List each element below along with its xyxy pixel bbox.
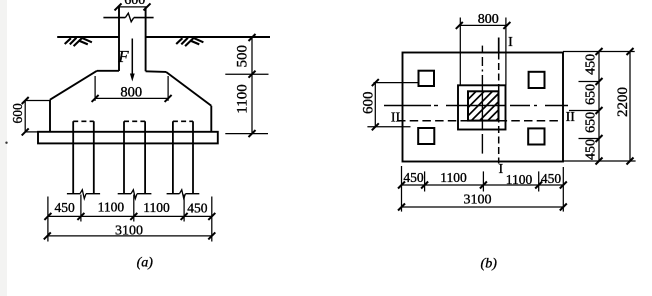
pile 3 bottom break symbol (167, 190, 200, 199)
svg-text:500: 500 (235, 45, 251, 67)
ink speck artefact (5, 142, 7, 144)
pile square top-left (plan) (419, 71, 435, 86)
pile 2 bottom break symbol (118, 190, 152, 199)
ground line left of column (57, 36, 119, 38)
figure a overall dimension 3100 (44, 223, 216, 239)
svg-text:I: I (498, 162, 503, 177)
svg-text:650: 650 (584, 84, 599, 105)
figure b bottom dimension 450 1100 1100 450 (398, 170, 567, 189)
ground line right of column (146, 36, 270, 38)
dimension 800 at top of figure b (456, 12, 511, 86)
pile square top-right (plan) (529, 72, 545, 88)
pile square bottom-right (plan) (528, 128, 544, 144)
load F arrow (130, 39, 135, 82)
dimension 800 in figure a (92, 76, 172, 102)
pile cap slab rectangle (38, 132, 218, 144)
svg-text:450: 450 (584, 139, 599, 160)
svg-text:1100: 1100 (440, 170, 467, 185)
figure b right extension lines (563, 52, 636, 162)
svg-text:600: 600 (360, 91, 376, 114)
svg-text:450: 450 (187, 200, 208, 215)
pile 1 of figure a (dashed embedded top, shafts) (73, 121, 94, 193)
section label II left (391, 111, 401, 126)
svg-text:(a): (a) (137, 256, 154, 271)
vertical centre line (dash-dot) (481, 46, 483, 154)
ground hatching right group (176, 38, 203, 46)
figure a right dimension 500 and 1100 (235, 34, 256, 137)
scan margin band left (0, 0, 7, 296)
svg-text:450: 450 (584, 54, 599, 75)
pile 1 bottom break symbol (67, 190, 100, 199)
figure a bottom extension lines (48, 195, 212, 242)
vertical dashed line (section I trace) (498, 53, 500, 164)
svg-text:800: 800 (478, 12, 499, 27)
svg-text:600: 600 (124, 0, 145, 8)
svg-text:1100: 1100 (506, 172, 533, 187)
pile square bottom-left (plan) (418, 128, 434, 144)
figure a dimension line 450 1100 1100 450 (44, 199, 215, 220)
svg-text:I: I (508, 35, 513, 50)
pedestal square (plan) (458, 85, 506, 129)
svg-text:2200: 2200 (615, 87, 631, 117)
svg-text:F: F (117, 47, 129, 66)
figure b overall dimension 3100 (398, 193, 567, 211)
svg-text:450: 450 (403, 170, 424, 185)
footing right shoulder (146, 70, 166, 73)
svg-text:650: 650 (584, 112, 599, 133)
figure b bottom extension lines (402, 166, 564, 212)
column square with hatching (plan) (432, 86, 539, 127)
dimension 600 at top of figure a (dim line, ticks, clipped text) (115, 0, 151, 10)
horizontal centre line II-II (dash-dot) (384, 105, 568, 107)
section label I bottom (498, 162, 503, 177)
figure a caption (a) (137, 256, 154, 271)
break symbol on column (103, 13, 153, 22)
svg-text:II: II (391, 111, 401, 126)
pile 3 of figure a (dashed embedded top, shafts) (173, 121, 193, 193)
svg-text:(b): (b) (481, 257, 498, 272)
plan view outline rectangle (403, 53, 564, 162)
section line I top stub (498, 38, 500, 53)
dimension 600 at left of figure a (10, 97, 50, 135)
horizontal dashed line (397, 120, 560, 122)
section label II right (566, 110, 576, 125)
svg-text:3100: 3100 (115, 223, 143, 238)
figure b right dimension 450 650 650 450 (584, 48, 603, 165)
svg-text:450: 450 (54, 200, 75, 215)
figure b caption (b) (481, 257, 498, 272)
load F label (117, 47, 129, 66)
svg-text:II: II (566, 110, 576, 125)
svg-text:1100: 1100 (98, 199, 125, 214)
section label I top (508, 35, 513, 50)
footing right vertical face (210, 106, 212, 132)
svg-text:450: 450 (541, 171, 562, 186)
footing right slope (166, 72, 211, 106)
pile 2 of figure a (dashed embedded top, shafts) (124, 121, 145, 193)
footing left slope (50, 71, 97, 100)
footing left vertical face (49, 100, 51, 133)
svg-text:800: 800 (120, 85, 142, 101)
dimension 600 at left of figure b (360, 79, 418, 130)
figure a right extension lines (225, 74, 268, 133)
svg-text:600: 600 (10, 103, 25, 124)
column of figure a (elevation) (119, 7, 146, 71)
svg-text:1100: 1100 (235, 84, 251, 113)
svg-text:1100: 1100 (143, 200, 170, 215)
footing left shoulder (97, 70, 119, 72)
svg-text:3100: 3100 (464, 193, 492, 208)
ground hatching left group (65, 38, 92, 46)
figure b overall dimension 2200 (615, 48, 634, 165)
